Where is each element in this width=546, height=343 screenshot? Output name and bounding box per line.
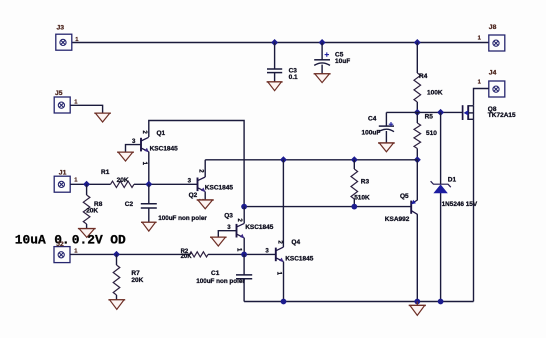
svg-text:10uF: 10uF (335, 58, 350, 65)
transistor Q2 KSC1845 (198, 177, 206, 192)
wire mid rail 1 (205, 159, 417, 161)
wire C2 to ground (148, 208, 150, 222)
ground at Q1 base (117, 152, 134, 161)
node junction top rail / C3 (271, 39, 278, 46)
svg-text:J4: J4 (489, 69, 497, 76)
svg-text:1: 1 (478, 79, 482, 85)
ground at J5 (94, 113, 111, 122)
capacitor C5 polarized (314, 59, 330, 61)
resistor R2 20K (190, 252, 209, 257)
wire Q8 source down to bottom rail (473, 119, 475, 301)
ground at R7 (108, 300, 125, 310)
svg-text:Q5: Q5 (400, 193, 409, 200)
svg-text:D1: D1 (448, 177, 457, 184)
wire Q2 emitter to ground (204, 192, 206, 200)
svg-text:J5: J5 (55, 90, 63, 97)
wire R1 to Q2 base (134, 183, 198, 185)
svg-text:3: 3 (265, 247, 269, 254)
svg-text:3: 3 (227, 224, 231, 231)
svg-text:0.2V: 0.2V (72, 233, 103, 248)
svg-text:100K: 100K (427, 90, 443, 97)
svg-text:20K: 20K (131, 277, 143, 284)
wire C3 to ground (274, 73, 276, 82)
wire mid rail 2 to Q5 base (244, 206, 411, 208)
connector J5 (54, 97, 70, 113)
svg-text:2: 2 (198, 169, 205, 173)
wire J4 pin 1 to Q8 drain (474, 89, 489, 106)
wire Q1 emitter down (148, 152, 150, 185)
svg-text:3: 3 (188, 178, 192, 185)
svg-text:20K: 20K (181, 254, 193, 260)
wire Q4 emitter down (283, 262, 285, 302)
node junction top rail / R4 (414, 39, 421, 46)
capacitor C1 100uF non polar (243, 254, 245, 275)
ground at C2 (141, 222, 157, 231)
svg-text:2: 2 (236, 218, 243, 222)
wire Q1 collector rail (149, 121, 244, 207)
svg-text:R4: R4 (419, 73, 428, 80)
node junction bottom rail / Q4 emitter (281, 299, 287, 305)
transistor Q5 KSA992 PNP (411, 200, 417, 215)
svg-text:10uA: 10uA (15, 233, 46, 248)
svg-text:KSC1845: KSC1845 (150, 145, 179, 152)
svg-text:KSC1845: KSC1845 (245, 224, 274, 231)
svg-text:20K: 20K (117, 177, 129, 184)
svg-text:20K: 20K (86, 207, 98, 214)
svg-text:100uF non poler: 100uF non poler (196, 278, 245, 285)
ground at bottom rail (416, 302, 418, 306)
svg-text:100uF non poler: 100uF non poler (158, 215, 207, 222)
wire J1 to R1 (70, 183, 110, 185)
wire Q3 base to ground (218, 231, 236, 238)
svg-text:100uF: 100uF (362, 129, 381, 136)
svg-text:KSC1845: KSC1845 (205, 185, 234, 192)
transistor Q4 KSC1845 (276, 247, 284, 262)
wire gate row to Q8 (417, 111, 462, 113)
svg-text:1N5246 15V: 1N5246 15V (442, 201, 478, 208)
svg-text:KSC1845: KSC1845 (285, 255, 314, 262)
capacitor C2 100uF non polar (148, 184, 150, 204)
transistor Q1 KSC1845 (141, 137, 149, 152)
ground at C3 (267, 82, 283, 91)
node junction bottom rail / D1 (438, 299, 444, 305)
node junction bottom rail / Q5 (414, 299, 420, 305)
wire junction to C4 (386, 111, 417, 113)
svg-text:J8: J8 (489, 24, 497, 31)
connector J3 (56, 34, 72, 50)
node junction R2/Q3 emitter/C1 (241, 252, 247, 258)
svg-text:R3: R3 (361, 178, 370, 185)
connector J1 (54, 176, 70, 192)
wire Q3 collector up (243, 207, 245, 224)
wire C5 lead (321, 43, 323, 60)
wire C5 to ground (321, 65, 323, 74)
node junction mid rail / R3 top (351, 156, 358, 163)
svg-text:2: 2 (276, 240, 283, 244)
svg-text:510K: 510K (354, 195, 370, 202)
svg-text:2: 2 (141, 130, 148, 134)
svg-text:R5: R5 (425, 114, 434, 121)
svg-text:Q3: Q3 (224, 212, 233, 219)
wire Q4 collector vertical (282, 160, 284, 247)
resistor R3 510K (353, 160, 355, 169)
wire top rail from J3 to J8 (72, 42, 489, 44)
transistor Q3 KSC1845 (237, 223, 245, 238)
resistor R5 510 (414, 123, 421, 149)
connector J8 (489, 35, 505, 51)
svg-text:Q1: Q1 (157, 130, 166, 137)
svg-text:C2: C2 (125, 201, 134, 208)
wire Q1 base to ground (126, 145, 142, 153)
node junction J2/R7 (113, 251, 120, 258)
node junction mid rail / Q4 collector net (280, 156, 287, 163)
node junction R4/R5/C4/gate (414, 109, 421, 116)
svg-text:Q2: Q2 (189, 192, 198, 199)
connector J4 (489, 81, 505, 97)
svg-text:1: 1 (478, 35, 482, 41)
svg-text:R7: R7 (131, 270, 140, 277)
transistor Q8 MOSFET TK72A15 (463, 105, 474, 120)
ground at R8 (78, 229, 96, 238)
diode D1 zener 1N5246 (431, 181, 451, 193)
ground at Q2 (197, 200, 214, 209)
svg-text:0.1: 0.1 (289, 74, 298, 81)
svg-text:J2: J2 (56, 241, 64, 248)
ground at C5 (314, 74, 331, 83)
node junction J1/R8 (83, 181, 90, 188)
wire bottom rail (244, 301, 473, 303)
connector J2 (54, 247, 70, 263)
wire C3 lead (274, 43, 276, 70)
node junction R1/C2/Q1 emitter (145, 181, 152, 188)
svg-text:KSA992: KSA992 (385, 216, 410, 223)
node junction rail2 / Q3 collector (241, 204, 247, 210)
wire D1 vertical (440, 112, 442, 184)
node junction rail2 / R3 bottom (351, 204, 357, 210)
wire C4 to ground (385, 131, 387, 143)
svg-text:1: 1 (141, 162, 148, 166)
svg-text:R1: R1 (101, 169, 110, 176)
svg-text:1: 1 (276, 272, 283, 276)
svg-text:Q4: Q4 (291, 239, 300, 246)
svg-text:OD: OD (110, 233, 126, 248)
ground at Q3 base (210, 237, 227, 246)
resistor R4 100K (416, 43, 418, 74)
node junction top rail / C5 (319, 39, 326, 46)
wire Q2 collector up to mid rail (204, 160, 206, 177)
svg-text:C1: C1 (211, 270, 220, 277)
wire Q5 collector down (416, 214, 418, 301)
resistor R1 20K (111, 181, 135, 187)
svg-text:J1: J1 (59, 169, 67, 176)
ground at C4 (378, 143, 395, 152)
resistor R8 20K (86, 184, 88, 195)
wire Q5 emitter up (416, 160, 418, 200)
svg-text:TK72A15: TK72A15 (488, 112, 516, 119)
svg-text:1: 1 (236, 248, 243, 252)
capacitor C3 (267, 68, 282, 70)
node junction R5 bottom / mid rail (414, 156, 421, 163)
wire C1 to bottom rail (243, 279, 245, 302)
node junction D1 top (437, 109, 444, 116)
wire Q3 emitter down (243, 238, 245, 255)
svg-text:C4: C4 (368, 115, 377, 122)
svg-text:510: 510 (426, 130, 437, 137)
svg-text:J3: J3 (57, 25, 65, 32)
capacitor C4 100uF polarized (385, 112, 387, 126)
svg-text:1: 1 (74, 177, 78, 183)
resistor R7 20K (116, 254, 118, 265)
wire R2 to Q4 base (208, 253, 276, 255)
wire J5 to ground (70, 105, 102, 113)
wire J2 to R2 (70, 253, 190, 255)
